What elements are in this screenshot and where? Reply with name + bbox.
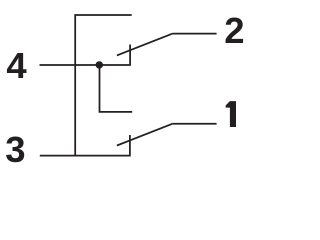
- svg-text:3: 3: [5, 129, 25, 170]
- wire: bottom terminal stub: [128, 135, 131, 156]
- pin label 1: [226, 101, 236, 127]
- wire: top terminal stub (lower throw contact, corner from pin-4 lead): [128, 45, 131, 66]
- wire: top switch lever: [117, 34, 173, 56]
- wire: pin 2 lead: [173, 33, 217, 35]
- svg-text:2: 2: [224, 10, 244, 51]
- DPDT switch schematic: [0, 0, 272, 178]
- wire: pin 1 lead: [172, 123, 216, 125]
- wire: pin 4 lead: [40, 64, 130, 66]
- wire: left vertical bus with top horizontal (upper throw contact of top switch): [75, 15, 132, 156]
- wire: pin 3 lead: [40, 155, 129, 157]
- svg-text:4: 4: [6, 45, 27, 86]
- wire: junction drop and middle horizontal (upper throw contact of bottom switch): [100, 65, 133, 112]
- node: junction dot on pin-4 lead: [96, 61, 103, 68]
- wire: bottom switch lever: [117, 124, 172, 146]
